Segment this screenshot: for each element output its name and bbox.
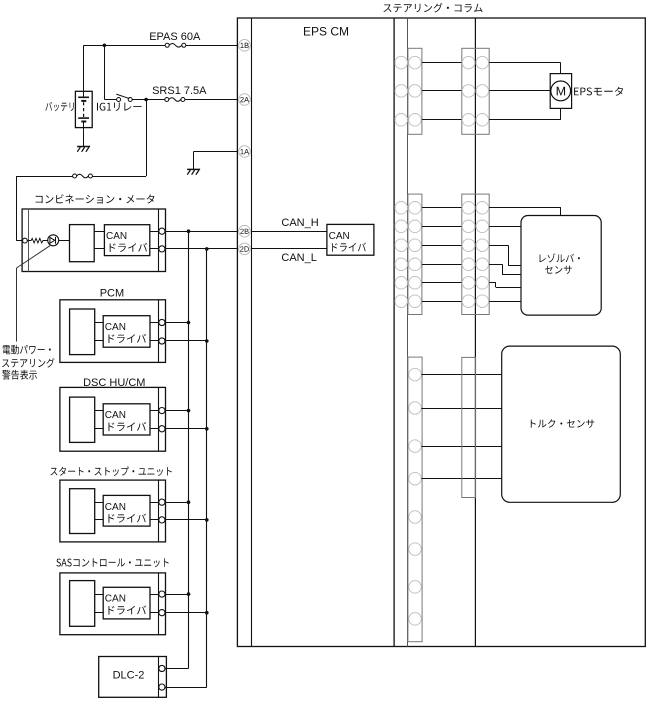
wires: CAN driver to pins (SAS) bbox=[150, 594, 159, 596]
wire: SS CAN_H to bus bbox=[165, 502, 189, 504]
terminal pair (motor, column connector) bbox=[395, 85, 407, 97]
meter gauge block bbox=[70, 225, 95, 262]
pins (PCM) bbox=[159, 319, 165, 325]
wire: resolver 1 bbox=[489, 207, 561, 209]
wire: 2D to EPS CAN driver (CAN_L) bbox=[252, 248, 327, 250]
svg-text:EPS CM: EPS CM bbox=[303, 25, 349, 39]
terminal pair (resolver, inline connector) bbox=[462, 220, 474, 232]
terminal pair (resolver, inline connector) bbox=[462, 258, 474, 270]
fuse SRS1 7.5A bbox=[165, 98, 169, 102]
wire: torque sensor 1 bbox=[421, 374, 501, 376]
wire: DSC CAN_L to bus bbox=[165, 428, 207, 430]
IC: CAN driver (DSC) bbox=[103, 404, 150, 435]
svg-text:CAN_L: CAN_L bbox=[281, 252, 316, 264]
terminal pair (resolver, inline connector) bbox=[462, 202, 474, 214]
EPS CM pin column line bbox=[251, 18, 253, 647]
wire: meter feed vertical bbox=[16, 176, 18, 241]
connector block (torque, column side) bbox=[462, 357, 476, 497]
node: relay output junction bbox=[144, 98, 148, 102]
IC: CAN driver (EPS CM) bbox=[327, 224, 374, 255]
relay IG1 switch bbox=[117, 98, 121, 102]
IC: CAN driver (PCM) bbox=[103, 316, 150, 348]
wires: resolver connector to inline connector bbox=[422, 207, 462, 209]
wire: PCM CAN_L to bus bbox=[165, 340, 207, 342]
wire: meter CAN_L to 2D bbox=[165, 248, 238, 250]
steering column connector bus line (left) bbox=[407, 18, 409, 647]
label: IG1 relay bbox=[97, 103, 142, 111]
IC: CAN driver (SAS) bbox=[103, 587, 150, 619]
label: EPS motor bbox=[574, 87, 623, 96]
terminal pair (motor, column connector) bbox=[395, 114, 407, 126]
label: electric power steering warning display bbox=[3, 345, 51, 355]
wire: battery positive to 1B (top feed) bbox=[84, 45, 166, 47]
IC: CAN driver (meter) bbox=[104, 225, 149, 256]
unit box (PCM) bbox=[60, 300, 166, 363]
pin 2A (EPS CM) bbox=[239, 94, 250, 105]
wire: DLC-2 CAN_H bbox=[165, 668, 189, 670]
svg-text:CAN: CAN bbox=[105, 594, 126, 605]
wires: CAN driver to pins (SS) bbox=[150, 502, 159, 504]
label: SAS control unit bbox=[56, 558, 168, 567]
wires: block to CAN driver (PCM) bbox=[95, 322, 104, 324]
pins (SAS) bbox=[159, 591, 165, 597]
terminal pair (resolver, inline connector) bbox=[462, 295, 474, 307]
internal block (DSC) bbox=[70, 397, 95, 442]
wire: motor phase 3 bbox=[489, 119, 561, 121]
wire: torque sensor 4 bbox=[421, 478, 501, 480]
wire: meter feed horizontal bbox=[92, 176, 146, 178]
terminal pair (resolver, column connector) bbox=[395, 239, 407, 251]
fuse (meter feed, unlabeled) bbox=[73, 174, 77, 178]
internal block (SAS) bbox=[70, 581, 95, 627]
terminal (torque strip) bbox=[409, 613, 421, 625]
pin (meter input) bbox=[23, 238, 28, 243]
combination meter box bbox=[22, 209, 165, 272]
terminal pair (resolver, inline connector) bbox=[462, 239, 474, 251]
label: resolver sensor bbox=[540, 254, 580, 263]
pins (meter CAN_H/CAN_L) bbox=[159, 228, 165, 234]
terminal (torque strip) bbox=[409, 511, 421, 523]
EPS CM right edge line bbox=[393, 18, 395, 647]
svg-text:DSC HU/CM: DSC HU/CM bbox=[83, 377, 145, 389]
wire: relay branch bbox=[104, 45, 106, 99]
wire: DSC CAN_H to bus bbox=[165, 410, 189, 412]
terminal (torque strip) bbox=[409, 440, 421, 452]
terminal (torque strip) bbox=[409, 543, 421, 555]
wire: motor phase 1 bbox=[489, 62, 561, 64]
wire: pin 1A to ground bbox=[194, 151, 238, 153]
torque sensor bbox=[502, 346, 621, 502]
terminal (torque strip) bbox=[409, 368, 421, 380]
svg-text:DLC-2: DLC-2 bbox=[113, 670, 145, 682]
resolver sensor bbox=[521, 216, 601, 316]
EPS motor M1 bbox=[550, 74, 571, 109]
fuse EPAS 60A bbox=[165, 43, 169, 47]
battery bbox=[75, 91, 92, 127]
wire: torque sensor 3 bbox=[421, 446, 501, 448]
connector block (resolver, column side) bbox=[462, 194, 489, 314]
pin 1B (EPS CM) bbox=[239, 40, 250, 51]
internal block (PCM) bbox=[70, 309, 95, 355]
pins (SS) bbox=[159, 499, 165, 505]
terminal pair (motor, inline connector) bbox=[462, 85, 474, 97]
ground (EPS CM 1A) bbox=[187, 168, 200, 170]
svg-text:CAN: CAN bbox=[329, 231, 350, 242]
terminal pair (motor, column connector) bbox=[395, 56, 407, 68]
terminal pair (resolver, inline connector) bbox=[462, 277, 474, 289]
wire: relay junction down to meter feed bbox=[146, 100, 148, 177]
label: combination meter bbox=[36, 194, 155, 203]
connector block (torque, EPS CM side strip) bbox=[408, 357, 422, 642]
wire: resolver 5 bbox=[489, 282, 496, 284]
wire: SS CAN_L to bus bbox=[165, 519, 207, 521]
wires: motor connector to inline connector bbox=[422, 62, 462, 64]
svg-text:CAN: CAN bbox=[105, 322, 126, 333]
wire: resolver 2 bbox=[489, 226, 521, 228]
wires: gauge to CAN driver (meter) bbox=[94, 231, 104, 233]
pin 1A (EPS CM) bbox=[239, 146, 250, 157]
wire: LED to meter gauge bbox=[59, 240, 70, 242]
wire: DLC-2 CAN_L bbox=[165, 687, 207, 689]
wire: resolver 4 bbox=[489, 264, 502, 266]
svg-text:SRS1 7.5A: SRS1 7.5A bbox=[152, 85, 207, 97]
pins (DSC) bbox=[159, 408, 165, 414]
wire: CAN_H bus bbox=[188, 231, 190, 668]
node: CAN_H bus top bbox=[187, 229, 191, 233]
node: battery/relay junction bbox=[103, 44, 107, 48]
terminal pair (motor, inline connector) bbox=[462, 114, 474, 126]
wires: block to CAN driver (SS) bbox=[95, 502, 104, 504]
wires: CAN driver to pins (PCM) bbox=[150, 322, 159, 324]
wire: 2B to EPS CAN driver (CAN_H) bbox=[252, 231, 327, 233]
connector block (motor, EPS CM side) bbox=[408, 48, 422, 134]
wire: CAN_L bus bbox=[206, 249, 208, 687]
EPS CM / steering column outer box bbox=[237, 18, 645, 647]
wires: CAN driver to pins (meter) bbox=[150, 231, 159, 233]
wire: fuse to pin 2A bbox=[185, 99, 238, 101]
svg-text:CAN: CAN bbox=[105, 502, 126, 513]
terminal pair (resolver, column connector) bbox=[395, 258, 407, 270]
pin 2B (EPS CM) bbox=[239, 226, 250, 237]
wire: torque sensor 2 bbox=[421, 408, 501, 410]
DLC-2 box bbox=[99, 657, 167, 698]
svg-text:PCM: PCM bbox=[100, 287, 124, 299]
terminal pair (resolver, column connector) bbox=[395, 220, 407, 232]
warning lamp LED D1 bbox=[48, 235, 59, 246]
unit box (SAS) bbox=[60, 573, 166, 635]
wire: motor phase 2 bbox=[489, 90, 550, 92]
internal block (SS) bbox=[70, 489, 95, 534]
wire: resolver 3 bbox=[489, 245, 508, 247]
terminal pair (resolver, column connector) bbox=[395, 277, 407, 289]
terminal (torque strip) bbox=[409, 402, 421, 414]
pin 2D (EPS CM) bbox=[239, 243, 250, 254]
label: start-stop unit bbox=[50, 467, 171, 477]
wire: SAS CAN_H to bus bbox=[165, 594, 189, 596]
label: battery bbox=[45, 102, 73, 111]
wire: relay to SRS1 fuse bbox=[132, 99, 165, 101]
ground (battery) bbox=[77, 146, 90, 148]
leader line to warning label bbox=[17, 245, 51, 268]
svg-text:CAN: CAN bbox=[105, 410, 126, 421]
terminal pair (resolver, column connector) bbox=[395, 202, 407, 214]
steering column connector bus line (right) bbox=[474, 18, 476, 647]
wires: CAN driver to pins (DSC) bbox=[150, 410, 159, 412]
pins (DLC-2) bbox=[159, 665, 165, 671]
label: torque sensor bbox=[531, 419, 595, 428]
connector block (motor, column side) bbox=[462, 48, 489, 134]
svg-text:CAN_H: CAN_H bbox=[281, 217, 318, 229]
svg-text:EPAS 60A: EPAS 60A bbox=[149, 31, 201, 43]
wire: battery negative to ground bbox=[83, 122, 85, 147]
terminal (torque strip) bbox=[409, 581, 421, 593]
unit box (SS) bbox=[60, 480, 166, 542]
wire: SAS CAN_L to bus bbox=[165, 612, 207, 614]
wires: block to CAN driver (DSC) bbox=[95, 410, 104, 412]
terminal pair (motor, inline connector) bbox=[462, 56, 474, 68]
wires: block to CAN driver (SAS) bbox=[95, 594, 104, 596]
wire: PCM CAN_H to bus bbox=[165, 322, 189, 324]
resistor (warning lamp) bbox=[27, 238, 47, 243]
svg-text:CAN: CAN bbox=[106, 231, 127, 242]
node: CAN_L bus top bbox=[205, 247, 209, 251]
unit box (DSC) bbox=[60, 387, 166, 451]
wire: meter CAN_H to 2B bbox=[165, 231, 238, 233]
connector block (resolver, EPS CM side) bbox=[408, 194, 422, 314]
terminal (torque strip) bbox=[409, 473, 421, 485]
wire: resolver 6 bbox=[489, 301, 521, 303]
IC: CAN driver (SS) bbox=[103, 495, 150, 526]
terminal pair (resolver, column connector) bbox=[395, 295, 407, 307]
label: steering column bbox=[383, 3, 482, 13]
